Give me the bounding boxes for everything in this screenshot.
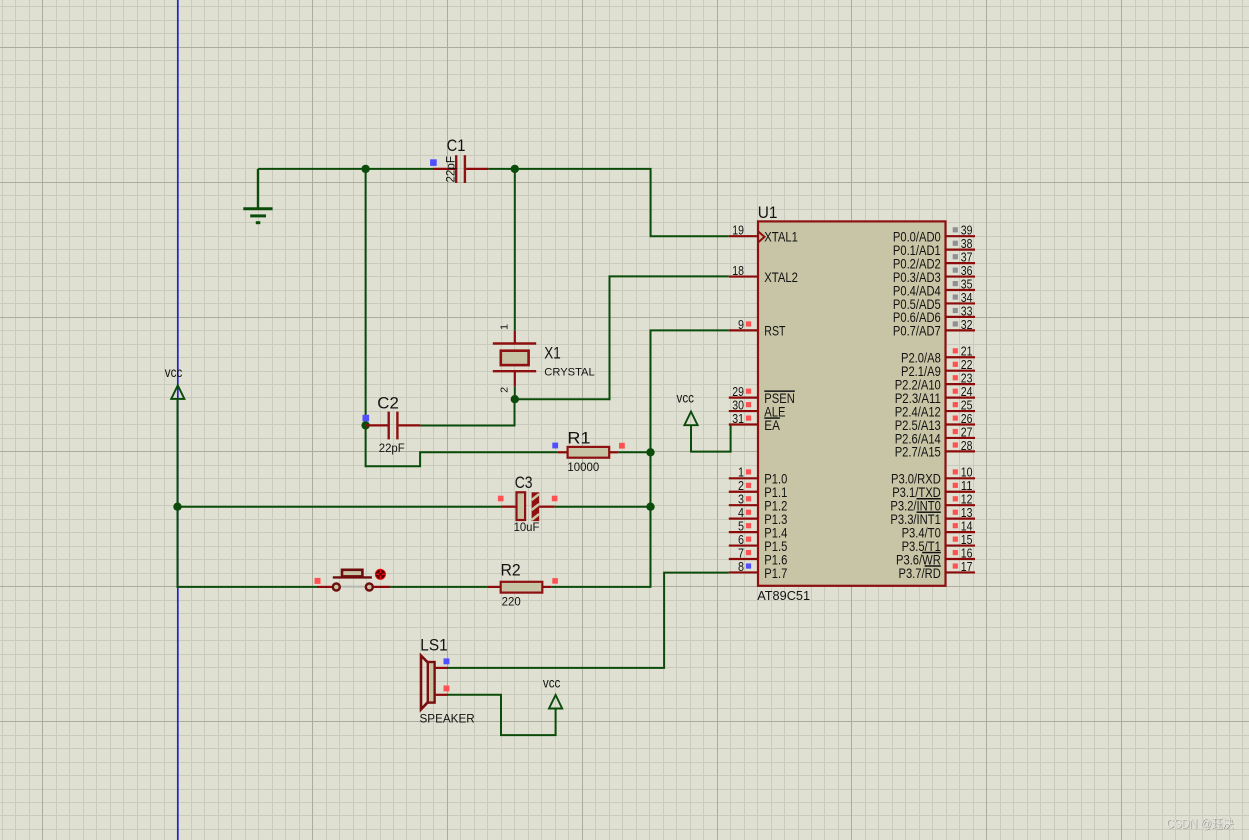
svg-text:220: 220 — [502, 595, 521, 609]
svg-text:10000: 10000 — [567, 460, 599, 474]
wire X1 pin2 to node C — [514, 386, 516, 399]
capacitor C3 lead left — [501, 506, 517, 508]
pin name P2.5/A13 — [895, 417, 941, 433]
pin name P3.5/T1 — [902, 538, 941, 554]
capacitor C3 plate right (polarized) — [532, 492, 540, 521]
svg-text:SPEAKER: SPEAKER — [420, 711, 476, 725]
pin 28 (P2.7/A15) stub+number — [946, 438, 976, 453]
pin 4 (P1.3) stub+number — [729, 505, 758, 520]
resistor R2 lead right — [542, 586, 551, 588]
resistor R2 body — [501, 582, 543, 593]
svg-text:vcc: vcc — [165, 365, 183, 380]
wire R1 right to spine — [618, 451, 650, 453]
pin name P0.7/AD7 — [893, 323, 941, 339]
capacitor C2 lead left — [366, 424, 388, 426]
pin name ALE — [764, 403, 785, 419]
wire node C to C2 right — [420, 399, 514, 425]
svg-text:22pF: 22pF — [444, 156, 458, 183]
button cap — [342, 570, 362, 577]
svg-text:R2: R2 — [501, 560, 521, 579]
button actuator bar — [333, 576, 372, 578]
pin 26 (P2.5/A13) stub+number — [946, 411, 976, 426]
svg-text:2: 2 — [499, 387, 511, 393]
svg-text:P2.7/A15: P2.7/A15 — [895, 444, 941, 460]
pin name XTAL1 — [764, 229, 798, 245]
sheet border (blue) — [177, 0, 179, 840]
pin 7 (P1.6) stub+number — [729, 545, 758, 560]
resistor R1 lead left — [558, 451, 568, 453]
button lead left — [317, 586, 333, 588]
pin 8 (P1.7) stub+number — [729, 559, 758, 574]
pin 34 (P0.5/AD5) stub+number — [946, 290, 976, 305]
svg-text:9: 9 — [738, 317, 744, 332]
pin 17 (P3.7/RD) stub+number — [946, 559, 976, 574]
pin name P1.1 — [764, 484, 787, 500]
pin 19 (XTAL1) stub+number — [729, 223, 758, 238]
marker C3 right (red) — [552, 496, 558, 502]
resistor R2 lead left — [487, 586, 501, 588]
pin name P0.6/AD6 — [893, 309, 941, 325]
svg-text:vcc: vcc — [677, 390, 695, 405]
pin 31 (EA) stub+number — [729, 411, 758, 426]
button contact (open) — [341, 586, 365, 588]
speaker LS1 pin top — [435, 667, 448, 669]
svg-text:vcc: vcc — [543, 676, 561, 691]
pin name EA — [764, 417, 780, 433]
crystal X1 body — [501, 351, 529, 365]
pin name P2.7/A15 — [895, 444, 941, 460]
wire VCC to EA pin31 — [691, 425, 731, 452]
pin 13 (P3.3/INT1) stub+number — [946, 505, 976, 520]
pin name P0.4/AD4 — [893, 282, 941, 298]
pin name P0.1/AD1 — [893, 242, 941, 258]
marker C1 (blue) — [430, 159, 437, 166]
pin name P2.3/A11 — [895, 390, 941, 406]
pin name P2.6/A14 — [895, 430, 941, 446]
node junction C1-right/X1 — [511, 165, 519, 173]
wire C2 node to R1 left — [366, 425, 558, 466]
svg-text:18: 18 — [732, 263, 744, 278]
speaker LS1 cone — [421, 656, 428, 710]
svg-text:C3: C3 — [515, 473, 533, 492]
pin 25 (P2.4/A12) stub+number — [946, 397, 976, 412]
node junction VCC/C3 — [173, 503, 181, 511]
svg-text:AT89C51: AT89C51 — [757, 588, 810, 603]
pin 22 (P2.1/A9) stub+number — [946, 357, 976, 372]
wire button to R2 — [390, 586, 487, 588]
pin 18 (XTAL2) stub+number — [729, 263, 758, 278]
wire node A to C2 left — [365, 169, 367, 426]
marker R1 left (blue) — [552, 443, 558, 449]
pin name XTAL2 — [764, 269, 798, 285]
pin name P3.6/WR — [896, 551, 941, 567]
crystal X1 pin2 — [514, 371, 516, 386]
svg-text:8: 8 — [738, 559, 744, 574]
svg-text:RST: RST — [764, 323, 786, 339]
node junction C3/RST — [646, 503, 654, 511]
wire P1.7 to speaker — [448, 573, 729, 668]
pin name P2.4/A12 — [895, 403, 941, 419]
pin name P0.5/AD5 — [893, 296, 941, 312]
crystal X1 pin1 — [514, 331, 516, 344]
wire RST spine — [551, 330, 729, 587]
svg-text:X1: X1 — [544, 343, 561, 362]
pin name P3.0/RXD — [891, 471, 941, 487]
button terminal right — [366, 584, 373, 591]
pin 37 (P0.2/AD2) stub+number — [946, 250, 976, 265]
pin name P1.3 — [764, 511, 787, 527]
pin 16 (P3.6/WR) stub+number — [946, 545, 976, 560]
svg-text:22pF: 22pF — [379, 441, 405, 455]
svg-text:C1: C1 — [447, 136, 466, 155]
svg-text:XTAL1: XTAL1 — [764, 229, 798, 245]
power VCC speaker arrow — [549, 695, 562, 709]
svg-text:1: 1 — [499, 324, 511, 330]
pin name P3.2/INT0 — [890, 498, 941, 514]
svg-text:32: 32 — [961, 317, 973, 332]
pin 29 (PSEN) stub+number — [729, 384, 758, 399]
svg-text:LS1: LS1 — [420, 636, 447, 655]
pin 15 (P3.5/T1) stub+number — [946, 532, 976, 547]
pin 33 (P0.6/AD6) stub+number — [946, 303, 976, 318]
capacitor C1 lead left — [434, 168, 455, 170]
pin name P1.7 — [764, 565, 787, 581]
wire speaker to VCC — [448, 695, 556, 735]
node junction X1 pin2 — [511, 395, 519, 403]
capacitor C2 lead right — [399, 424, 421, 426]
svg-text:P3.7/RD: P3.7/RD — [899, 565, 941, 581]
node junction R1/RST — [646, 448, 654, 456]
svg-text:CRYSTAL: CRYSTAL — [544, 366, 594, 378]
pin name P3.7/RD — [899, 565, 941, 581]
pin name P1.4 — [764, 524, 787, 540]
svg-text:10uF: 10uF — [514, 520, 540, 534]
crystal X1 plate top — [493, 342, 536, 344]
wire node B to X1 pin1 — [514, 169, 516, 331]
ground — [243, 169, 272, 223]
marker R1 right (red) — [619, 443, 625, 449]
marker C2 (blue) — [363, 415, 370, 422]
button terminal left — [333, 584, 340, 591]
marker R2 right (red) — [552, 578, 558, 584]
marker button left (red) — [315, 578, 321, 584]
capacitor C3 plate left — [517, 492, 526, 520]
pin 39 (P0.0/AD0) stub+number — [946, 223, 976, 238]
svg-text:R1: R1 — [567, 428, 590, 447]
capacitor C3 lead right — [539, 506, 554, 508]
pin 3 (P1.2) stub+number — [729, 492, 758, 507]
pin 32 (P0.7/AD7) stub+number — [946, 317, 976, 332]
pin name P0.2/AD2 — [893, 255, 941, 271]
pin 2 (P1.1) stub+number — [729, 478, 758, 493]
pin 6 (P1.5) stub+number — [729, 532, 758, 547]
resistor R1 lead right — [609, 451, 618, 453]
svg-text:31: 31 — [732, 411, 744, 426]
power VCC left arrow — [171, 385, 184, 399]
pin name PSEN — [764, 390, 795, 406]
speaker LS1 body — [428, 662, 435, 703]
svg-text:CSDN @珏决: CSDN @珏决 — [1166, 817, 1234, 831]
resistor R1 body — [568, 447, 610, 458]
op U1 clock marker XTAL1 — [758, 231, 765, 242]
wire VCC rail left — [178, 399, 318, 587]
svg-text:17: 17 — [961, 559, 973, 574]
svg-text:P0.7/AD7: P0.7/AD7 — [893, 323, 941, 339]
pin name P1.0 — [764, 471, 787, 487]
wire C3 right to spine — [555, 506, 651, 508]
marker LS1 bottom (red) — [444, 686, 450, 692]
pin 10 (P3.0/RXD) stub+number — [946, 465, 976, 480]
pin name P3.4/T0 — [902, 524, 941, 540]
pin name P1.2 — [764, 498, 787, 514]
pin name P1.6 — [764, 551, 787, 567]
node junction C2 left — [361, 421, 369, 429]
pin 9 (RST) stub+number — [729, 317, 758, 332]
button lead right — [373, 586, 390, 588]
pin 36 (P0.3/AD3) stub+number — [946, 263, 976, 278]
power VCC mid arrow — [684, 412, 697, 426]
pin 27 (P2.6/A14) stub+number — [946, 424, 976, 439]
pin name P3.1/TXD — [892, 484, 941, 500]
svg-text:XTAL2: XTAL2 — [764, 269, 798, 285]
node junction GND/C1-left — [361, 165, 369, 173]
pin 30 (ALE) stub+number — [729, 397, 758, 412]
svg-text:28: 28 — [961, 438, 973, 453]
capacitor C1 plates — [455, 155, 457, 183]
pin name RST — [764, 323, 786, 339]
pin name P3.3/INT1 — [890, 511, 941, 527]
wire C1 right to XTAL1 — [488, 169, 729, 236]
button interactive dot — [375, 569, 386, 580]
pin 11 (P3.1/TXD) stub+number — [946, 478, 976, 493]
pin name P2.0/A8 — [901, 350, 941, 366]
svg-text:C2: C2 — [377, 393, 399, 412]
speaker LS1 pin bottom — [435, 694, 448, 696]
pin 14 (P3.4/T0) stub+number — [946, 519, 976, 534]
pin 12 (P3.2/INT0) stub+number — [946, 492, 976, 507]
svg-text:U1: U1 — [758, 203, 778, 222]
pin name P0.0/AD0 — [893, 229, 941, 245]
wire node C to XTAL2 — [515, 276, 729, 399]
marker C3 left (red) — [498, 496, 504, 502]
pin 21 (P2.0/A8) stub+number — [946, 344, 976, 359]
svg-text:19: 19 — [732, 223, 744, 238]
pin 5 (P1.4) stub+number — [729, 519, 758, 534]
op U1 body — [758, 221, 946, 585]
pin 24 (P2.3/A11) stub+number — [946, 384, 976, 399]
pin name P1.5 — [764, 538, 787, 554]
pin 35 (P0.4/AD4) stub+number — [946, 276, 976, 291]
crystal X1 plate bottom — [493, 370, 536, 372]
pin name P0.3/AD3 — [893, 269, 941, 285]
marker LS1 top (blue) — [444, 658, 450, 664]
pin 23 (P2.2/A10) stub+number — [946, 371, 976, 386]
svg-text:P1.7: P1.7 — [764, 565, 787, 581]
pin 1 (P1.0) stub+number — [729, 465, 758, 480]
pin name P2.2/A10 — [895, 376, 941, 392]
pin name P2.1/A9 — [901, 363, 941, 379]
pin 38 (P0.1/AD1) stub+number — [946, 236, 976, 251]
svg-text:EA: EA — [764, 417, 780, 433]
wire VCC rail to C3 left — [178, 506, 502, 508]
capacitor C2 plates — [388, 412, 390, 440]
capacitor C1 lead right — [466, 168, 488, 170]
wire ground to C1 left (net GND top) — [258, 168, 434, 170]
